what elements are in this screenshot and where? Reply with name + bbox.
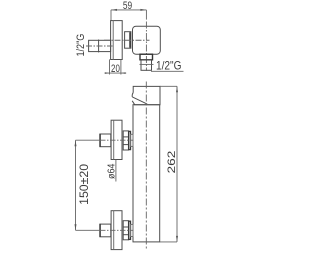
front view: body column — [133, 105, 160, 242]
svg-text:262: 262 — [166, 151, 178, 174]
top view: inlet pipe joint line — [98, 40, 100, 53]
front view upper fitting: hex nut — [123, 131, 128, 150]
svg-text:20: 20 — [111, 63, 120, 75]
top view: outlet leader underline — [151, 70, 184, 72]
front view: handle diagonal — [132, 97, 147, 104]
dimension 150±20 arrowheads — [75, 140, 77, 230]
top view: outlet flange — [140, 54, 153, 60]
top view: nipple between plate and body — [125, 32, 131, 49]
top view: outlet pipe — [141, 60, 152, 71]
front view upper fitting: inlet block — [100, 134, 111, 147]
front view upper fitting: escutcheon inner line — [113, 120, 115, 159]
front view lower fitting: escutcheon plate — [111, 211, 122, 250]
front view lower fitting: escutcheon inner line — [113, 211, 115, 250]
svg-text:150±20: 150±20 — [79, 164, 91, 205]
top view: nipple/body centerline — [104, 39, 150, 41]
front view upper fitting: escutcheon plate — [111, 120, 122, 159]
dimension 150±20 line — [75, 140, 77, 230]
dimension 59 line — [111, 10, 146, 21]
front view lower fitting: centerline — [76, 229, 101, 231]
top view: inlet pipe — [89, 40, 111, 51]
front view: lever handle — [133, 86, 160, 104]
dimension 20 arrowheads — [105, 72, 126, 74]
top view: inlet pipe centerline — [86, 45, 113, 47]
front view upper fitting: hex nut facet lines — [123, 136, 128, 138]
svg-text:1/2"G: 1/2"G — [156, 59, 182, 73]
diameter 64 leader line — [115, 160, 117, 182]
front view: handle left bulge arc — [132, 93, 133, 97]
dimension 262 arrowheads — [176, 86, 178, 242]
front view: handle small diagonal — [132, 101, 135, 105]
front view upper fitting: nut dark collar — [129, 131, 131, 149]
front view lower fitting: nut dark collar — [129, 221, 131, 239]
top view: outlet cross tick — [140, 63, 154, 65]
dimension 262 extension lines — [160, 86, 177, 242]
top view: body vertical centerline — [145, 22, 147, 71]
front view upper fitting: centerline — [76, 139, 101, 141]
svg-text:1/2"G: 1/2"G — [75, 34, 87, 57]
front view lower fitting: inlet block — [100, 224, 111, 237]
top view: nipple dark edge — [129, 32, 131, 48]
top view: mixer body square — [133, 26, 161, 54]
front view lower fitting: hex nut — [123, 221, 128, 240]
front view upper fitting: nipple to body — [131, 134, 134, 146]
front view lower fitting: nipple to body — [131, 224, 134, 236]
front view lower fitting: hex nut facet lines — [123, 226, 128, 228]
front view: body centerline — [145, 82, 147, 250]
dimension 20 extension lines — [105, 59, 127, 74]
top view: wall plate — [111, 21, 123, 60]
svg-text:ø64: ø64 — [106, 163, 117, 179]
dimension 59 arrowheads — [111, 9, 146, 11]
top view: wall plate inner line — [112, 21, 114, 60]
